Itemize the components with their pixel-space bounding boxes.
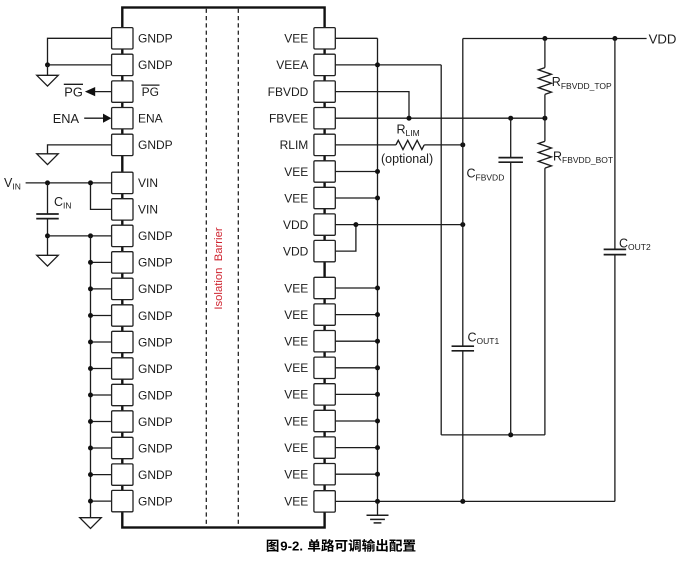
junction VEE bus bottom bbox=[375, 499, 380, 504]
wire VIN input bbox=[26, 182, 112, 184]
junction VIN node bbox=[88, 180, 93, 185]
svg-text:VEE: VEE bbox=[284, 165, 308, 179]
wire GNDP pin13 bbox=[91, 368, 112, 370]
resistor RFBVDD_TOP lead bottom bbox=[544, 94, 546, 118]
pin GNDP (left 9) bbox=[112, 252, 173, 273]
svg-text:GNDP: GNDP bbox=[138, 415, 173, 429]
svg-text:9-2.: 9-2. bbox=[280, 539, 303, 554]
junction GNDP bus row14 bbox=[88, 393, 93, 398]
svg-text:GNDP: GNDP bbox=[138, 58, 173, 72]
wire VEE pin7 bbox=[335, 197, 377, 199]
svg-text:VDD: VDD bbox=[649, 31, 677, 46]
pin VEE (right 11) bbox=[284, 304, 335, 325]
IC U1 body outline bbox=[122, 8, 324, 528]
resistor RFBVDD_BOT bbox=[538, 141, 551, 168]
svg-text:FBVDD: FBVDD bbox=[268, 85, 309, 99]
pin GNDP (left 14) bbox=[112, 384, 173, 405]
junction CFBVDD top bbox=[508, 116, 513, 121]
svg-text:VEE: VEE bbox=[284, 281, 308, 295]
wire GNDP pin9 bbox=[91, 261, 112, 263]
wire VIN pin7 joins pin6 bbox=[91, 183, 112, 210]
svg-text:RLIM: RLIM bbox=[280, 138, 309, 152]
resistor RFBVDD_TOP bbox=[538, 68, 551, 95]
pin VEE (right 7) bbox=[284, 187, 335, 208]
junction GNDP bus row12 bbox=[88, 340, 93, 345]
pin VEE (right 10) bbox=[284, 277, 335, 298]
PG label overline bbox=[64, 83, 83, 85]
junction GNDP bus row16 bbox=[88, 446, 93, 451]
pin GNDP (left 17) bbox=[112, 464, 173, 485]
wire VEEA pin2 bbox=[335, 64, 441, 66]
svg-text:GNDP: GNDP bbox=[138, 468, 173, 482]
junction FBVDD/FBVEE bbox=[407, 116, 412, 121]
svg-text:GNDP: GNDP bbox=[138, 309, 173, 323]
capacitor COUT2 lead bottom bbox=[614, 255, 616, 502]
wire divider bottom rail bbox=[441, 434, 545, 436]
pin VDD (right 8) bbox=[283, 214, 335, 235]
wire COUT1/VDD vertical upper bbox=[462, 39, 464, 347]
junction COUT1 bottom bbox=[460, 499, 465, 504]
PG arrowhead bbox=[85, 87, 95, 96]
junction VEE bus row16 bbox=[375, 445, 380, 450]
wire GNDP pin2 bbox=[48, 64, 112, 66]
junction RLIM/VDD line bbox=[460, 142, 465, 147]
svg-text:(optional): (optional) bbox=[381, 152, 433, 166]
junction VEE bus row7 bbox=[375, 196, 380, 201]
wire PG arrow bbox=[95, 91, 112, 93]
svg-text:ENA: ENA bbox=[53, 111, 80, 126]
junction CIN top bbox=[45, 180, 50, 185]
svg-text:VEE: VEE bbox=[284, 32, 308, 46]
svg-text:FBVEE: FBVEE bbox=[269, 112, 308, 126]
ground symbol 2 bbox=[37, 154, 59, 165]
svg-text:VEE: VEE bbox=[284, 361, 308, 375]
svg-text:ENA: ENA bbox=[138, 112, 163, 126]
wire VEE pin13 bbox=[335, 367, 377, 369]
wire GNDP pin15 bbox=[91, 421, 112, 423]
pin GNDP (left 15) bbox=[112, 411, 173, 432]
wire FBVEE pin4 to divider junction bbox=[335, 117, 545, 119]
node GNDP bus bbox=[90, 236, 92, 518]
pin VEE (right 17) bbox=[284, 464, 335, 485]
junction VDD line bbox=[460, 222, 465, 227]
wire GNDP pin1 to ground stub bbox=[48, 38, 112, 65]
wire GNDP pin8 bbox=[48, 235, 112, 237]
pin PG (left 3) bbox=[112, 81, 160, 102]
pin VEE (right 14) bbox=[284, 384, 335, 405]
svg-text:VEE: VEE bbox=[284, 335, 308, 349]
pin FBVDD (right 3) bbox=[268, 81, 336, 102]
capacitor CFBVDD lead top bbox=[510, 118, 512, 157]
capacitor CFBVDD lead bottom bbox=[510, 162, 512, 435]
svg-text:VEE: VEE bbox=[284, 414, 308, 428]
pin GNDP (left 8) bbox=[112, 225, 173, 246]
capacitor COUT2 lead top bbox=[614, 39, 616, 250]
junction GNDP bus row11 bbox=[88, 313, 93, 318]
junction GNDP bus row15 bbox=[88, 419, 93, 424]
capacitor CIN lead bottom to ground bbox=[47, 219, 49, 256]
svg-text:VEE: VEE bbox=[284, 388, 308, 402]
wire VEE pin11 bbox=[335, 314, 377, 316]
wire VEE pin17 bbox=[335, 473, 377, 475]
capacitor COUT1 bbox=[452, 345, 475, 347]
pin VIN (left 7) bbox=[112, 199, 158, 220]
junction VEE bus row14 bbox=[375, 392, 380, 397]
pin VDD (right 9) bbox=[283, 240, 335, 261]
wire RLIM to VDD line bbox=[424, 144, 463, 146]
node VEE bus bbox=[377, 38, 379, 501]
pin GNDP (left 1) bbox=[112, 28, 173, 49]
junction GNDP bus row13 bbox=[88, 366, 93, 371]
junction CFBVDD bottom bbox=[508, 432, 513, 437]
junction VEE bus row6 bbox=[375, 169, 380, 174]
resistor RLIM bbox=[396, 140, 424, 149]
ENA arrowhead bbox=[103, 114, 111, 123]
caption figure title bbox=[267, 539, 416, 554]
junction GNDP bus row9 bbox=[88, 260, 93, 265]
junction GNDP bus row10 bbox=[88, 286, 93, 291]
wire VDD pins to VDD line bbox=[356, 224, 463, 226]
pin VEEA (right 2) bbox=[276, 54, 335, 75]
pin VEE (right 1) bbox=[284, 28, 335, 49]
junction VDD pins bbox=[353, 222, 358, 227]
junction VEE bus row12 bbox=[375, 339, 380, 344]
pin ENA (left 4) bbox=[112, 108, 163, 129]
svg-text:GNDP: GNDP bbox=[138, 335, 173, 349]
ground symbol 4 bbox=[80, 518, 102, 529]
isolation barrier dashed line right bbox=[237, 9, 239, 527]
junction VEEA/VEE bus bbox=[375, 62, 380, 67]
svg-text:GNDP: GNDP bbox=[138, 388, 173, 402]
svg-text:VEE: VEE bbox=[284, 191, 308, 205]
pin VEE (right 16) bbox=[284, 437, 335, 458]
ground symbol 1 bbox=[37, 75, 59, 86]
svg-text:VDD: VDD bbox=[283, 218, 309, 232]
svg-text:VIN: VIN bbox=[138, 203, 158, 217]
wire VDD pin9 joins pin8 bbox=[335, 225, 356, 252]
wire GNDP pin12 bbox=[91, 341, 112, 343]
pin GNDP (left 11) bbox=[112, 305, 173, 326]
wire GNDP pin14 bbox=[91, 394, 112, 396]
svg-text:GNDP: GNDP bbox=[138, 256, 173, 270]
junction VEE bus row10 bbox=[375, 286, 380, 291]
wire VEE pin10 bbox=[335, 287, 377, 289]
svg-text:VEE: VEE bbox=[284, 308, 308, 322]
capacitor CIN lead top bbox=[47, 183, 49, 214]
pin FBVEE (right 4) bbox=[269, 108, 335, 129]
pin VEE (right 18) bbox=[284, 491, 335, 512]
wire VEE pin1 to bus bbox=[335, 37, 377, 39]
wire FBVDD pin3 bbox=[335, 92, 409, 119]
wire GNDP pin17 bbox=[91, 474, 112, 476]
junction CIN/GNDP row8 bbox=[45, 233, 50, 238]
junction VDD rail / RFBVDD_TOP bbox=[542, 36, 547, 41]
wire GNDP pin5 to ground bbox=[48, 145, 112, 154]
pin GNDP (left 16) bbox=[112, 437, 173, 458]
junction GNDP bus top bbox=[88, 233, 93, 238]
svg-text:VIN: VIN bbox=[138, 176, 158, 190]
pin VEE (right 6) bbox=[284, 161, 335, 182]
svg-text:Isolation Barrier: Isolation Barrier bbox=[213, 227, 225, 309]
wire VEE pin14 bbox=[335, 393, 377, 395]
svg-text:VEE: VEE bbox=[284, 468, 308, 482]
pin VEE (right 12) bbox=[284, 331, 335, 352]
capacitor COUT2 bbox=[604, 248, 627, 250]
pin GNDP (left 5) bbox=[112, 134, 173, 155]
resistor RFBVDD_TOP lead bbox=[544, 39, 546, 68]
pin VEE (right 15) bbox=[284, 410, 335, 431]
svg-text:PG: PG bbox=[142, 85, 159, 99]
wire VEE pin18 bottom rail bbox=[335, 500, 615, 502]
wire GNDP pin18 bbox=[91, 500, 112, 502]
wire VDD pin8 bbox=[335, 224, 356, 226]
wire VEE pin15 bbox=[335, 420, 377, 422]
capacitor CIN bbox=[36, 213, 59, 215]
wire COUT1 lead bottom bbox=[462, 351, 464, 502]
wire to ground symbol 1 bbox=[47, 65, 49, 75]
svg-text:VEEA: VEEA bbox=[276, 58, 308, 72]
ground symbol VEE (3-bar) bbox=[377, 501, 379, 515]
pin VEE (right 13) bbox=[284, 357, 335, 378]
svg-text:VDD: VDD bbox=[283, 244, 309, 258]
wire ENA arrow bbox=[84, 117, 103, 119]
svg-text:GNDP: GNDP bbox=[138, 229, 173, 243]
wire VEE pin6 bbox=[335, 171, 377, 173]
svg-text:GNDP: GNDP bbox=[138, 138, 173, 152]
wire GNDP pin16 bbox=[91, 447, 112, 449]
capacitor CFBVDD bbox=[498, 157, 523, 159]
svg-text:VEE: VEE bbox=[284, 495, 308, 509]
svg-text:GNDP: GNDP bbox=[138, 32, 173, 46]
svg-text:PG: PG bbox=[64, 84, 83, 99]
junction divider midpoint bbox=[542, 116, 547, 121]
junction GNDP bus row18 bbox=[88, 499, 93, 504]
pin RLIM (right 5) bbox=[280, 134, 336, 155]
pin GNDP (left 10) bbox=[112, 278, 173, 299]
svg-text:VEE: VEE bbox=[284, 441, 308, 455]
pin GNDP (left 13) bbox=[112, 358, 173, 379]
pin GNDP (left 18) bbox=[112, 490, 173, 511]
pin VIN (left 6) bbox=[112, 172, 158, 193]
resistor RFBVDD_BOT lead top bbox=[544, 118, 546, 141]
wire GNDP pin11 bbox=[91, 315, 112, 317]
junction pin1/pin2 ground bbox=[45, 62, 50, 67]
junction VEE bus row13 bbox=[375, 365, 380, 370]
node VDD rail bbox=[463, 38, 647, 40]
pin GNDP (left 12) bbox=[112, 331, 173, 352]
wire VEE pin12 bbox=[335, 340, 377, 342]
svg-text:GNDP: GNDP bbox=[138, 441, 173, 455]
wire GNDP pin10 bbox=[91, 288, 112, 290]
wire VEE pin16 bbox=[335, 447, 377, 449]
svg-text:GNDP: GNDP bbox=[138, 362, 173, 376]
junction VEE bus row15 bbox=[375, 419, 380, 424]
junction VEE bus row17 bbox=[375, 472, 380, 477]
isolation barrier dashed line left bbox=[205, 9, 207, 527]
wire RFBVDD_BOT to divider bottom bbox=[544, 168, 546, 435]
wire VEEA vertical to divider bottom bbox=[440, 65, 442, 435]
wire RLIM pin5 bbox=[335, 144, 396, 146]
ground symbol 3 bbox=[37, 255, 59, 266]
junction VEE bus row11 bbox=[375, 312, 380, 317]
svg-text:GNDP: GNDP bbox=[138, 282, 173, 296]
junction VDD rail / COUT2 bbox=[612, 36, 617, 41]
pin GNDP (left 2) bbox=[112, 54, 173, 75]
junction GNDP bus row17 bbox=[88, 472, 93, 477]
svg-text:GNDP: GNDP bbox=[138, 494, 173, 508]
